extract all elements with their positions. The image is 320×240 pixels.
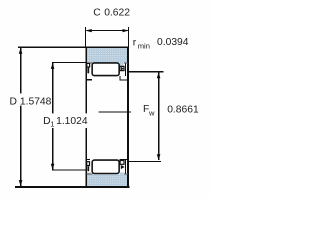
svg-text:w: w <box>148 109 155 118</box>
svg-text:D: D <box>10 96 17 107</box>
svg-text:1: 1 <box>50 120 54 129</box>
svg-text:min: min <box>138 41 150 50</box>
svg-text:C: C <box>93 8 101 19</box>
svg-text:r: r <box>133 38 137 49</box>
svg-text:0.622: 0.622 <box>104 8 130 19</box>
svg-text:0.0394: 0.0394 <box>157 37 189 48</box>
svg-text:0.8661: 0.8661 <box>167 104 199 115</box>
svg-text:1.1024: 1.1024 <box>56 116 88 127</box>
svg-text:1.5748: 1.5748 <box>20 96 52 107</box>
